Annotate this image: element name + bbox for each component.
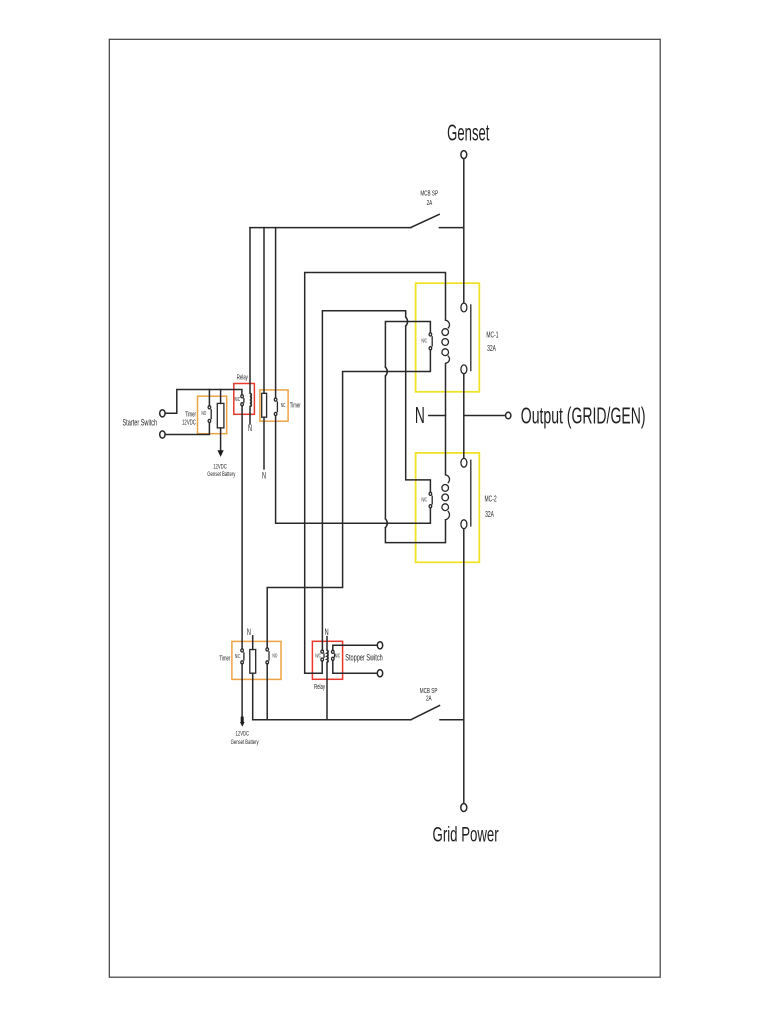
drawing frame [109,39,660,977]
relay R2 right N/C contact (stopper) [332,650,335,660]
svg-text:Genset Battery: Genset Battery [207,471,235,478]
wire link to relay R2 NC bottom [305,672,323,674]
timer T3 coil element [250,650,256,674]
wire to MC-2 coil bottom [385,520,445,543]
svg-text:MC-1: MC-1 [486,331,498,339]
contactor MC-1 coil [442,320,450,363]
svg-text:MC-2: MC-2 [485,495,497,503]
wire drop to timer T2 coil [263,228,265,394]
breaker MCB SP 2A (bottom) blade [411,706,440,720]
wire timer T3 NC to battery B2 [241,664,243,717]
contactor MC-2 enclosure [416,453,480,562]
contactor MC-1 main contact [461,303,471,374]
timer T1 enclosure [198,396,227,434]
wire MC-1 NC bottom [267,350,430,648]
svg-text:N: N [415,404,425,429]
wire genset line to MC-1 [463,159,465,303]
relay R2 left N/C contact [321,650,324,661]
timer T2 NC contact [274,398,277,416]
contactor MC-2 coil [442,475,450,520]
svg-text:Genset Battery: Genset Battery [231,739,259,746]
timer T3 enclosure [232,641,281,679]
wire MC-2 NC top feed [322,311,405,650]
svg-text:2A: 2A [427,199,433,207]
relay R1 enclosure [234,384,255,415]
contactor MC-1 enclosure [416,283,480,392]
wire stopper contact bottom [333,660,377,673]
relay R2 enclosure [312,641,342,679]
svg-text:N: N [325,626,329,637]
svg-text:NO: NO [201,410,206,416]
relay R1 coil element [250,393,251,406]
svg-text:N/C: N/C [235,396,241,402]
svg-text:Grid Power: Grid Power [433,822,499,846]
svg-text:N: N [248,423,252,434]
svg-text:12VDC: 12VDC [236,731,250,738]
wire relay R1 NC to timer T3 NC [241,406,243,649]
svg-text:12VDC: 12VDC [213,464,227,471]
svg-text:NO: NO [273,653,278,659]
node starter switch terminal bottom [160,431,165,438]
wire output tap [464,415,506,417]
node stopper switch terminal top [377,642,382,649]
wire relay R2 coil to bus [326,662,328,719]
wire timer T1 coil to battery [220,428,222,450]
svg-text:NC: NC [281,402,286,408]
wire interlock vertical [384,376,386,519]
svg-text:N/C: N/C [335,652,341,658]
contactor MC-2 aux N/C contact [429,492,432,508]
battery B1 12VDC arrow [218,450,224,457]
relay R2 coil element [327,650,328,662]
svg-text:N/C: N/C [235,653,241,659]
wire timer T3 coil to bus [252,673,254,720]
svg-text:MCB SP: MCB SP [420,189,438,197]
wire starter bottom return [165,423,209,435]
svg-text:N/C: N/C [421,496,427,502]
battery B2 12VDC symbol [240,717,245,727]
svg-text:Timer: Timer [185,412,196,419]
svg-text:N: N [262,470,266,481]
wire timer T3 N line [252,636,254,650]
wire hop over MC-1 NC top wire [406,317,408,326]
wire drop to relay R1 coil [249,228,251,394]
wire MCB2 right segment [440,719,464,721]
wire MC-1 coil top feed [305,273,446,674]
timer T3 NO contact [266,648,269,664]
svg-text:Starter Switch: Starter Switch [122,417,157,428]
svg-text:2A: 2A [426,694,432,702]
wire MC-1 coil to MC-2 coil with N tap [445,363,447,474]
breaker MCB SP 2A (top) blade [411,214,440,227]
node Genset terminal [461,151,467,159]
wire main line to grid [463,529,465,804]
node stopper switch terminal bottom [377,670,382,677]
wire relay R1 coil bottom to N [249,407,251,425]
timer T2 coil element [262,393,267,417]
svg-text:Timer: Timer [290,402,301,409]
wire timer T3 NO bottom to bus [266,664,268,720]
relay R1 N/C contact [241,395,244,406]
wire MCB1 right segment [439,227,463,229]
wire drop to timer T2 NC contact [275,228,277,398]
wire timer T2 coil bottom to N [263,417,265,469]
timer T1 NO contact [208,406,211,423]
svg-text:Stopper Switch: Stopper Switch [345,652,382,663]
svg-text:Timer: Timer [219,656,230,663]
svg-text:Relay: Relay [314,684,325,691]
timer T3 N/C contact [241,649,244,664]
wire relay R2 left NC bottom [321,661,323,673]
wire MC-2 NC bottom [276,416,431,524]
wire stopper contact top [333,645,377,650]
contactor MC-2 main contact [461,458,471,528]
svg-text:12VDC: 12VDC [182,420,196,427]
wire N tap [429,415,446,417]
wire starter top to control bus [165,390,242,414]
svg-text:N: N [247,626,251,637]
wire main line between contactors [463,374,465,458]
timer T2 enclosure [260,390,288,421]
timer T1 coil element [217,403,224,428]
node starter switch terminal top [160,410,165,417]
svg-text:32A: 32A [487,345,496,353]
wire hop over MC-2 NC bottom wire [385,519,387,528]
wire relay R2 N line [326,637,328,651]
svg-text:Genset: Genset [447,120,490,146]
svg-text:Output (GRID/GEN): Output (GRID/GEN) [521,404,646,429]
wire drop to timer T1 coil [220,390,222,404]
wire bottom bus [253,719,411,721]
wire hop over MC-1 NC bottom wire [385,367,387,376]
svg-text:Relay: Relay [237,375,248,382]
wire MCB1 left segment [250,227,411,229]
contactor MC-1 aux N/C contact [429,333,432,350]
node grid power terminal [461,804,467,812]
svg-text:N/C: N/C [315,653,321,659]
svg-text:N/C: N/C [421,338,427,344]
wire vertical to MC-2 aux contact [406,326,431,492]
node output terminal [506,412,511,419]
svg-text:32A: 32A [485,511,494,519]
wire MC-1 NC top [385,322,430,368]
wire drop to timer T1 NO contact [208,390,210,406]
